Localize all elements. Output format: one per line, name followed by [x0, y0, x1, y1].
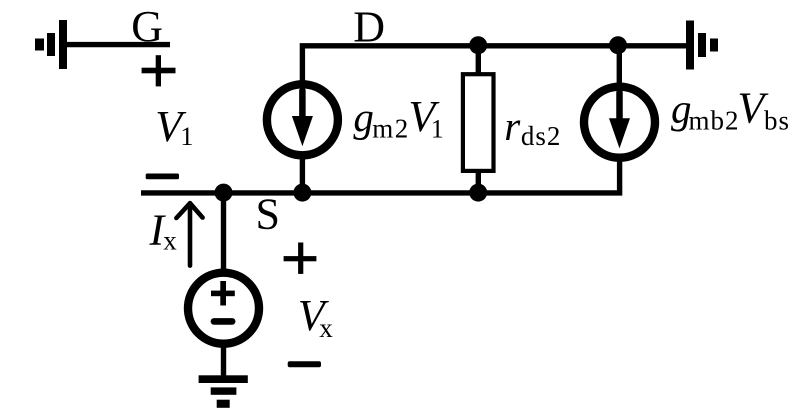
svg-text:x: x: [319, 313, 333, 343]
wire gmb2 source top stub: [617, 46, 622, 86]
svg-text:1: 1: [180, 122, 193, 151]
wire gate to left ground: [67, 42, 170, 47]
svg-text:1: 1: [431, 114, 444, 143]
svg-text:bs: bs: [764, 106, 790, 136]
resistor rds2: [463, 74, 494, 171]
svg-text:G: G: [131, 2, 163, 51]
ground (bottom, below Vx): [199, 375, 248, 408]
plus sign (Vx +): [284, 243, 317, 274]
ground (left, at gate G): [35, 20, 67, 69]
label Ix: [149, 206, 178, 256]
svg-text:m2: m2: [372, 113, 410, 143]
wire S to Vx source: [221, 193, 226, 270]
junction dot D/gmb2: [609, 36, 627, 54]
junction dot S/rds2: [469, 184, 487, 202]
label Vx: [298, 291, 333, 343]
svg-text:D: D: [353, 2, 385, 51]
arrow Ix (upward): [176, 203, 202, 265]
minus sign (Vx -): [288, 361, 321, 367]
svg-text:g: g: [353, 94, 374, 140]
label V1: [155, 102, 193, 151]
svg-text:x: x: [163, 225, 177, 255]
wire resistor bottom stub: [476, 171, 481, 193]
junction dot S/gm2: [293, 184, 311, 202]
ground (right, at drain rail): [686, 21, 718, 70]
svg-text:S: S: [256, 190, 280, 239]
current source gmb2Vbs: [584, 87, 655, 158]
wire gm2 source to S rail: [300, 156, 305, 193]
label gmb2Vbs: [671, 84, 790, 136]
label rds2: [504, 103, 561, 151]
svg-text:ds2: ds2: [521, 121, 562, 151]
plus sign (V1 +): [142, 55, 176, 86]
wire Vx source to bottom ground: [221, 348, 226, 378]
svg-text:r: r: [504, 103, 521, 149]
voltage source Vx: [188, 273, 259, 344]
svg-text:mb2: mb2: [689, 105, 740, 135]
junction dot S/Vx: [215, 184, 233, 202]
current source gm2V1: [267, 84, 338, 155]
junction dot D/rds2: [469, 36, 487, 54]
minus sign (V1 -): [146, 174, 179, 180]
wire D rail with corner down to gm2 source: [302, 46, 686, 84]
wire S rail with right corner up to gmb2 source: [141, 157, 620, 193]
label gm2V1: [353, 92, 443, 143]
wire resistor top stub: [476, 46, 481, 74]
